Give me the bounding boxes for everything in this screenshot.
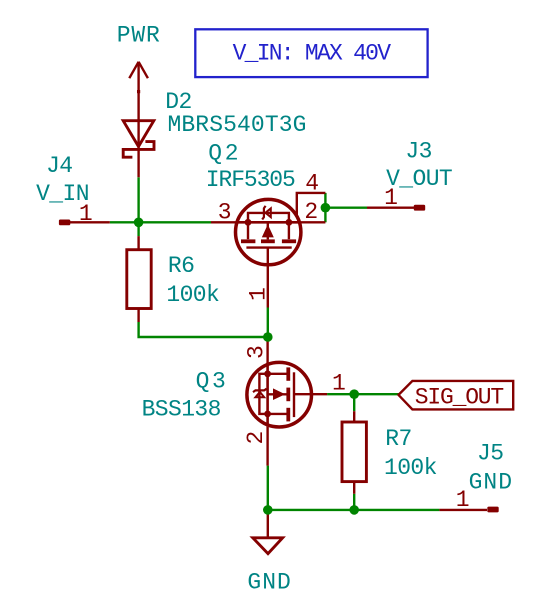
svg-text:R6: R6 — [168, 253, 194, 279]
svg-text:J4: J4 — [46, 153, 72, 179]
svg-text:Q3: Q3 — [196, 369, 229, 395]
svg-text:Q2: Q2 — [208, 141, 241, 167]
svg-text:4: 4 — [305, 171, 318, 197]
svg-text:J5: J5 — [477, 441, 503, 467]
svg-text:GND: GND — [247, 570, 291, 596]
svg-text:1: 1 — [79, 201, 92, 227]
svg-text:R7: R7 — [385, 426, 411, 452]
svg-text:2: 2 — [243, 431, 269, 444]
svg-text:1: 1 — [384, 185, 397, 211]
svg-text:J3: J3 — [405, 138, 431, 164]
svg-text:1: 1 — [332, 371, 345, 397]
svg-text:GND: GND — [469, 470, 513, 496]
svg-text:V_IN: MAX 40V: V_IN: MAX 40V — [233, 40, 392, 66]
svg-text:IRF5305: IRF5305 — [206, 167, 295, 193]
svg-text:3: 3 — [243, 346, 269, 359]
svg-text:PWR: PWR — [117, 23, 161, 49]
svg-text:2: 2 — [304, 199, 317, 225]
svg-text:1: 1 — [456, 487, 469, 513]
svg-text:MBRS540T3G: MBRS540T3G — [168, 112, 307, 138]
svg-text:SIG_OUT: SIG_OUT — [415, 384, 504, 410]
svg-text:100k: 100k — [166, 282, 219, 308]
svg-text:100k: 100k — [384, 455, 437, 481]
svg-text:BSS138: BSS138 — [142, 397, 221, 423]
svg-text:3: 3 — [218, 200, 231, 226]
svg-text:1: 1 — [245, 288, 271, 301]
